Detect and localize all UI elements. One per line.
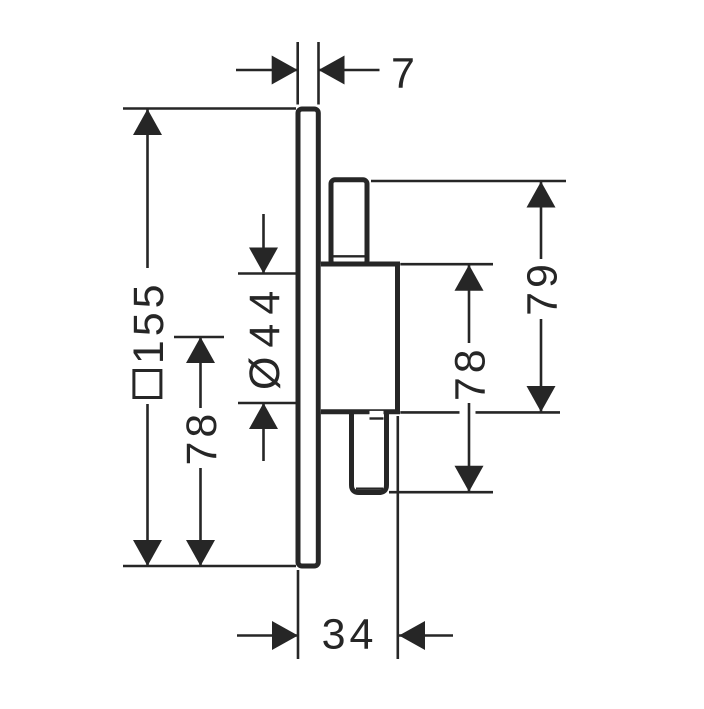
extension line plate right (7 dim) (317, 42, 320, 105)
arrow down d44 top (249, 248, 278, 274)
extension line 79 bottom segment b (476, 411, 561, 414)
arrow up 78 left top (186, 337, 215, 363)
dimension shaft diameter 44 lower (262, 403, 265, 461)
extension line 78 mid bottom (389, 491, 493, 494)
arrow up d44 bottom (249, 403, 278, 429)
extension line 34 left (297, 570, 300, 659)
svg-text:79: 79 (518, 260, 566, 316)
dimension line 155 (146, 109, 149, 566)
bottom handle (352, 412, 387, 493)
extension line 34 right (396, 416, 399, 659)
extension line 79 bottom segment a (400, 411, 459, 414)
dimension tail right (34 dim) (399, 634, 453, 637)
svg-text:7: 7 (391, 50, 415, 98)
valve body middle (321, 264, 398, 412)
arrow down 155 bottom (133, 540, 162, 566)
dimension line 78 left (199, 337, 202, 566)
arrow right 34 left (272, 621, 298, 650)
dimension line 78 mid (468, 264, 471, 492)
dimension tail left (34 dim) (237, 634, 298, 637)
wall plate 155x155x7 (298, 109, 318, 566)
arrow up 155 top (133, 109, 162, 135)
arrow left 7 right (319, 56, 345, 85)
arrow down 78 mid bottom (455, 466, 484, 492)
arrow up 78 mid top (455, 265, 484, 291)
extension line top-left (155 top) (123, 107, 296, 110)
arrow left 34 right (399, 621, 425, 650)
arrow up 79 top (527, 182, 556, 208)
extension line 78 mid top (400, 263, 493, 266)
arrow down 79 bottom (527, 386, 556, 412)
label square symbol of 155 (134, 371, 161, 398)
notch white over middle bottom edge (370, 411, 384, 417)
seam line top sleeve (334, 255, 365, 257)
svg-text:78: 78 (446, 345, 494, 401)
dimension line 79 (540, 181, 543, 412)
extension line bottom-left (155 bottom) (123, 565, 296, 568)
extension line plate left (7 dim) (296, 42, 299, 105)
svg-text:Ø44: Ø44 (241, 282, 289, 390)
seam line bottom handle top (370, 417, 384, 419)
dimension tail right (7 dim) (319, 69, 380, 72)
tick line (diameter 44 bottom) (238, 402, 296, 405)
dimension tail left (7 dim) (236, 69, 298, 72)
seam line bottom handle lower (356, 488, 383, 490)
arrow right 7 left (272, 56, 298, 85)
svg-text:155: 155 (125, 280, 173, 364)
tick line (diameter 44 top) (238, 272, 296, 275)
dimension shaft diameter 44 upper (262, 214, 265, 274)
svg-text:34: 34 (322, 611, 378, 659)
arrow down 78 left bottom (186, 540, 215, 566)
white pads under rotated texts (132, 259, 557, 468)
svg-text:78: 78 (178, 410, 226, 466)
extension line 79 top (371, 180, 566, 183)
tick center line (78 left top) (174, 336, 224, 339)
top handle sleeve (331, 180, 367, 265)
